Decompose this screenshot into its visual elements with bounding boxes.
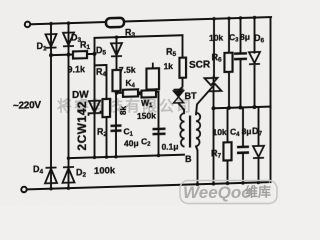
junction (229,110.5) (227, 106, 231, 110)
pulse transformer B secondary winding (196, 113, 200, 147)
junction (51,52.5) (49, 53, 53, 57)
junction (116.5,36.5) (115, 35, 119, 39)
terminal top-left (25, 22, 30, 28)
wire C3 column (240, 18, 242, 108)
diode D6 (249, 52, 260, 64)
diode D7 (253, 146, 264, 158)
potentiometer W1 row box (142, 90, 157, 97)
junction (240.5,21) (239, 16, 243, 20)
junction (229,21) (227, 16, 231, 20)
junction (254.5,21) (253, 16, 257, 20)
diode D4 (45, 167, 57, 183)
wire mid-left bus (69, 155, 185, 158)
wire triac cathode column (213, 91, 215, 184)
wire W1 row (117, 92, 159, 93)
junction (106.5,156) (105, 155, 109, 159)
wire D5-R4-C1 column (115, 37, 118, 157)
junction (254.5,110.5) (253, 105, 257, 109)
wire R6 column (228, 18, 230, 108)
resistor R2 (103, 99, 111, 117)
junction (116,156) (114, 155, 118, 159)
wire upper distribution (95, 35, 183, 38)
resistor R6 10k (225, 53, 233, 72)
junction (240.5,110.5) (239, 105, 243, 109)
wire R5 column (180, 35, 183, 90)
junction (158.5,156) (157, 154, 161, 158)
junction (68.5,52.5) (67, 53, 71, 57)
junction (258.5,186) (257, 181, 261, 185)
junction (197.5,186) (196, 182, 200, 186)
diode D5 (111, 43, 122, 56)
paper noise (0, 0, 1, 1)
wire D3-D2 column (68, 23, 70, 188)
wire R2 branch (95, 65, 107, 157)
wire C2 column (158, 92, 160, 156)
diac BT (174, 89, 184, 103)
resistor 8k (row box) (123, 89, 138, 96)
pulse transformer B core (189, 115, 191, 147)
junction (68.5,21) (67, 21, 71, 25)
wire mid-right bus (214, 107, 271, 109)
terminal bottom-left (21, 187, 26, 193)
potentiometer W1 vertical box (147, 62, 160, 89)
junction (51,21) (49, 22, 53, 26)
wire D1-D4 column (50, 24, 52, 189)
wire right rail (270, 17, 272, 182)
wire C4 column (242, 107, 244, 183)
junction (51,186) (49, 187, 53, 191)
diode D2 (63, 167, 75, 183)
junction (68.5,186) (67, 186, 71, 190)
resistor R5 1k (180, 58, 187, 78)
wire zener column (94, 38, 96, 158)
resistor R3 (top rail, inline) (106, 18, 124, 28)
junction (213.5,186) (212, 182, 216, 186)
junction (214,21) (212, 17, 216, 21)
pulse transformer B primary winding (180, 113, 184, 147)
junction (94.5,52.5) (93, 52, 97, 56)
junction (68.5,156) (67, 156, 71, 160)
wire R7 column (227, 108, 229, 184)
wire bottom rail (27, 182, 268, 189)
capacitor C1 40u (111, 126, 122, 131)
capacitor C2 0.1u (153, 129, 166, 134)
wire diac to transformer (179, 103, 185, 113)
capacitor C4 8u (237, 147, 249, 153)
junction (116.5,92.3) (115, 91, 119, 95)
capacitor C3 8u (234, 53, 247, 59)
zener diode DW (89, 101, 101, 116)
diode D1 (46, 34, 57, 48)
junction (139.5,93.5) (138, 92, 142, 96)
junction (213.5,110.5) (212, 106, 216, 110)
wire transformer secondary return (196, 146, 198, 184)
resistor R4 7.5k (113, 70, 121, 91)
resistor R1 9.1k (inline on row) (73, 51, 87, 58)
wire triac anode column (213, 19, 215, 78)
watermark logo bottom-right (180, 181, 277, 204)
diode D3 (63, 32, 74, 46)
wire D6 column (254, 18, 256, 108)
triac SCR (205, 76, 222, 94)
junction (243,186) (241, 181, 245, 185)
resistor R7 10k (224, 142, 232, 160)
wire R1 row (51, 54, 95, 55)
junction (227.5,186) (226, 182, 230, 186)
wire gate diagonal (196, 92, 208, 114)
junction (94.5,156) (93, 156, 97, 160)
wire D7 column (258, 107, 260, 183)
wire top rail (31, 17, 271, 24)
